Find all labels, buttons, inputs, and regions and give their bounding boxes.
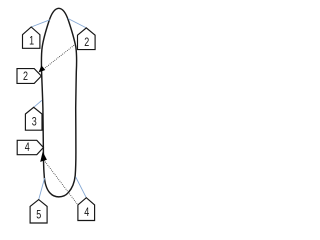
callout balloon 4 bottom-right (house tag)	[78, 198, 95, 221]
svg-text:2: 2	[84, 35, 89, 49]
dotted leader from arrow 2 to callout 2 top-right	[44, 44, 76, 69]
callout balloon 3 (house tag)	[25, 107, 42, 130]
arrowhead 2 (filled, at hull left edge)	[39, 65, 46, 72]
callout balloon 1 (house tag)	[23, 27, 40, 48]
leader line (blue) to callout 3	[34, 100, 42, 107]
svg-text:5: 5	[36, 208, 41, 222]
callout balloon 2 top-right (house tag)	[78, 28, 96, 50]
svg-text:4: 4	[25, 140, 30, 154]
leader line (blue) to callout 2 top-right	[68, 19, 86, 28]
svg-text:2: 2	[23, 69, 28, 83]
svg-text:4: 4	[84, 205, 89, 219]
svg-text:3: 3	[32, 114, 37, 128]
leader line (blue) to callout 4 bottom-right	[76, 177, 87, 198]
leader line (blue) to callout 5	[39, 178, 45, 200]
svg-text:1: 1	[29, 33, 34, 47]
callout balloon 4 left (pentagon tag pointing right)	[17, 140, 43, 154]
leader line (blue) to callout 1	[31, 20, 50, 27]
callout balloon 2 left (pentagon tag pointing right)	[17, 69, 41, 84]
dotted leader from arrow 4 to callout 4 bottom-right	[44, 160, 78, 205]
hull outline (pointed-top elongated body)	[41, 8, 76, 197]
arrowhead 4 (filled, at hull left edge)	[40, 152, 47, 162]
callout balloon 5 (house tag)	[30, 200, 47, 223]
